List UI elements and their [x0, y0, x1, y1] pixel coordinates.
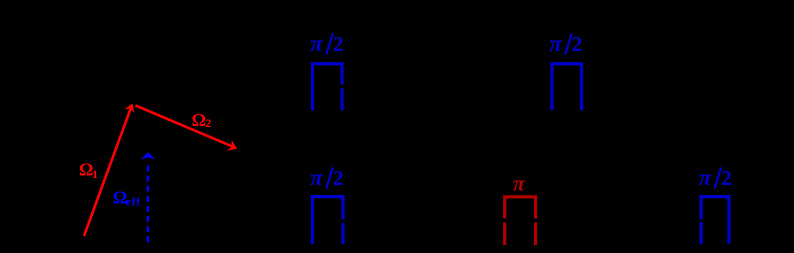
- svg-text:π: π: [513, 171, 526, 196]
- svg-text:Ω: Ω: [192, 110, 206, 130]
- svg-text:2: 2: [572, 32, 583, 56]
- svg-text:π: π: [549, 31, 563, 56]
- label pi/2 top-left: [310, 31, 343, 56]
- pulse pi/2 top-right (blue): [552, 64, 582, 111]
- Raman beam arrow Omega1 (red, pointing up-right to virtual level): [84, 104, 134, 237]
- label pi/2 top-right: [549, 31, 582, 56]
- Raman beam arrow Omega2 (red, pointing down-right): [136, 106, 238, 151]
- trajectory crossing gap in bottom-left pulse right edge: [341, 219, 346, 223]
- pulse pi/2 bottom-right (blue): [701, 197, 729, 244]
- label Omega_eff: [113, 188, 141, 209]
- label Omega2: [192, 110, 212, 130]
- label pi/2 bottom-left: [310, 165, 343, 190]
- svg-text:2: 2: [721, 166, 732, 190]
- trajectory crossing gaps in pi pulse both edges: [503, 219, 508, 223]
- svg-text:2: 2: [333, 32, 344, 56]
- svg-text:2: 2: [205, 116, 211, 130]
- pulse pi/2 bottom-left (blue): [313, 197, 344, 244]
- svg-text:π: π: [310, 165, 324, 190]
- effective Rabi frequency dashed arrow Omega_eff (blue, vertical): [141, 152, 155, 242]
- label pi/2 bottom-right: [699, 165, 732, 190]
- svg-text:1: 1: [92, 167, 98, 181]
- pulse pi/2 top-left (blue): [313, 64, 343, 111]
- trajectory crossing gap in bottom-right pulse left edge: [699, 219, 704, 222]
- trajectory crossing gap in top-left pulse right edge: [340, 85, 345, 89]
- svg-text:eff: eff: [126, 196, 141, 208]
- label Omega1: [79, 160, 98, 181]
- svg-text:π: π: [699, 165, 713, 190]
- svg-text:π: π: [310, 31, 324, 56]
- svg-text:2: 2: [333, 166, 344, 190]
- pulse pi bottom-middle (dark red): [505, 197, 536, 245]
